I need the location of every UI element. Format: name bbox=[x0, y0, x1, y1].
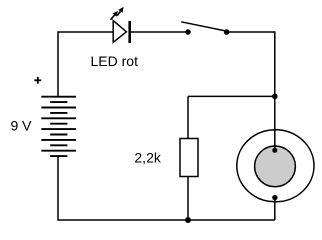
wire from bottom rail up to motor bottom terminal bbox=[274, 198, 276, 220]
wire bottom rail from battery minus to below motor bbox=[58, 156, 275, 220]
svg-text:LED rot: LED rot bbox=[91, 53, 139, 69]
LED light arrow 2 bbox=[117, 7, 123, 16]
motor bottom terminal dot bbox=[272, 195, 277, 200]
LED D1 triangle (anode) bbox=[113, 21, 126, 43]
junction A dot (switch/resistor/motor node) bbox=[272, 94, 278, 100]
switch S1 left contact dot bbox=[185, 29, 191, 35]
resistor R1 body bbox=[180, 139, 198, 177]
wire stub over disc to motor top terminal bbox=[274, 144, 276, 151]
motor top terminal dot bbox=[272, 148, 277, 153]
switch S1 right contact dot bbox=[224, 29, 230, 35]
LED D1 cathode bar bbox=[128, 21, 131, 43]
wire from switch right terminal right then down to junction A bbox=[227, 32, 275, 96]
wire top-left from battery up and right to LED anode bbox=[58, 32, 113, 97]
LED light arrow 1 bbox=[111, 11, 118, 20]
motor M1 outer circle bbox=[237, 130, 314, 202]
wire resistor branch horizontal from R1 top node to junction A bbox=[188, 95, 275, 97]
svg-text:9 V: 9 V bbox=[11, 118, 33, 134]
wire from resistor R1 bottom to junction B on bottom rail bbox=[187, 177, 189, 221]
wire from LED cathode to switch left terminal bbox=[130, 31, 188, 33]
battery B1 9V plates bbox=[41, 97, 76, 156]
wire from junction A down to motor top terminal bbox=[274, 96, 276, 150]
svg-text:2,2k: 2,2k bbox=[134, 150, 161, 166]
switch S1 lever bbox=[181, 22, 226, 31]
junction B dot (bottom rail / resistor node) bbox=[185, 217, 191, 223]
motor M1 inner disc bbox=[255, 146, 296, 187]
battery plus sign bbox=[34, 77, 41, 84]
wire from branch down to resistor R1 top bbox=[187, 96, 189, 138]
